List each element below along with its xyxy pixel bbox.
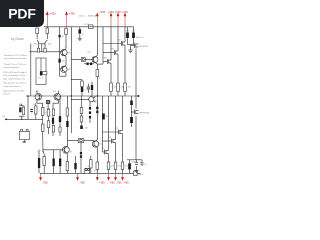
svg-text:22k: 22k — [45, 113, 48, 115]
capacitor C21 — [91, 85, 93, 90]
capacitor C4 vas — [81, 87, 83, 92]
resistor R20 in loop — [42, 72, 47, 75]
resistor R1b — [46, 28, 49, 34]
svg-text:Amp gain here on 100v: Amp gain here on 100v — [4, 89, 25, 92]
wire: far right mosfet column lower — [135, 96, 137, 109]
wire: driver right emitter — [66, 154, 68, 162]
svg-text:-V50: -V50 — [116, 181, 122, 184]
loop inner wire — [40, 58, 42, 71]
resistor R3 (upper pair emitter) — [37, 48, 39, 52]
svg-text:-V50: -V50 — [80, 181, 86, 184]
resistor R5 vas load — [81, 81, 84, 87]
description text block — [4, 54, 28, 95]
wire: gate bus top bank — [102, 27, 104, 64]
+V arrow 5 — [117, 16, 119, 27]
svg-text:2N5: 2N5 — [48, 43, 51, 45]
transistor Q5 lower pair left — [35, 91, 43, 104]
resistor R14 driver emitter left — [43, 157, 46, 166]
wire: input shunt RC — [19, 105, 25, 107]
resistor R19 zobel inductor — [90, 160, 93, 169]
wire: vas load column — [71, 79, 82, 81]
wire: feedback lower res column — [66, 96, 68, 108]
driver base bus — [43, 149, 65, 151]
diode D1 — [59, 35, 61, 38]
transistor Q6 lower pair right — [53, 91, 61, 104]
capacitor C15 comp — [52, 118, 54, 124]
svg-text:2N55: 2N55 — [99, 144, 103, 146]
+V50 labels — [43, 11, 130, 185]
wire: br drop3 — [141, 160, 143, 162]
svg-text:Translation: R1 R2 100u in: Translation: R1 R2 100u in — [4, 54, 28, 57]
svg-text:+V50: +V50 — [108, 11, 115, 14]
wire: gate branch M7 — [103, 140, 112, 142]
svg-text:47u: 47u — [83, 89, 86, 91]
capacitor C17 under bus — [130, 101, 133, 106]
svg-text:2N55: 2N55 — [67, 53, 71, 55]
wire: VAS collector column — [65, 43, 67, 49]
zener pair wire — [84, 63, 94, 65]
wire: series R column — [35, 103, 37, 106]
mosfet M2 — [114, 50, 118, 55]
lamp line to bias — [67, 140, 78, 142]
+V arrow 4 — [110, 16, 112, 27]
svg-text:2N55: 2N55 — [67, 69, 71, 71]
wire: feedback column — [70, 27, 72, 133]
lamp L3 bias — [78, 138, 84, 142]
PDF badge — [0, 0, 44, 27]
fuse F1 — [89, 25, 94, 29]
small box bottom rail right — [134, 171, 138, 176]
svg-text:1N4: 1N4 — [85, 128, 88, 130]
svg-text:100u: 100u — [132, 162, 138, 164]
node bus b — [97, 95, 98, 96]
wire: far right mosfet column upper — [135, 49, 137, 97]
transistor Q9 pre-driver — [89, 97, 94, 102]
wire: gate bus lower bank — [102, 96, 104, 152]
wire: left long column — [30, 44, 32, 97]
svg-text:+V50: +V50 — [99, 11, 106, 14]
cap film right — [141, 161, 144, 163]
resistor R13 tail2 — [47, 121, 50, 128]
svg-text:type; all the breakers 20: type; all the breakers 20 — [4, 77, 26, 80]
svg-text:IRFP240: IRFP240 — [139, 46, 148, 48]
resistor R6 driver col — [96, 70, 99, 77]
bottom -V rail — [40, 172, 140, 174]
capacitor C16 — [74, 163, 76, 169]
svg-text:R11: R11 — [88, 52, 91, 54]
svg-text:F1 5A: F1 5A — [84, 23, 90, 26]
capacitor C13 bottom right electro — [128, 163, 131, 169]
mosfet M3 — [107, 59, 111, 64]
svg-text:A968: A968 — [68, 151, 72, 154]
svg-text:IRFP9240: IRFP9240 — [139, 113, 149, 115]
svg-text:0R3: 0R3 — [118, 166, 121, 168]
svg-text:T4 and T5 in a TO-92 are: T4 and T5 in a TO-92 are — [4, 64, 27, 66]
-V arrow 2 — [77, 173, 79, 178]
capacitor C18 mid — [59, 116, 61, 122]
-V arrow 1 — [40, 173, 42, 178]
transistor Q3 (cascode) — [61, 49, 67, 57]
lamp line to driver — [71, 59, 81, 61]
capacitor C7 cap across drivers — [53, 159, 55, 167]
resistor R12 tail — [47, 109, 50, 116]
wire: lower right cap column — [131, 96, 133, 101]
svg-text:10u: 10u — [19, 104, 22, 106]
ground G1 (top cap) — [78, 37, 82, 39]
mosfet M7 lower bank — [112, 139, 116, 144]
svg-text:are mounted on heatsinks.: are mounted on heatsinks. — [4, 57, 28, 60]
mosfet M6 lower bank — [119, 130, 123, 135]
resistor R9 fb upper — [41, 108, 44, 116]
source resistor RS3 — [114, 162, 117, 170]
wire: bias diode column — [89, 102, 91, 107]
svg-text:2N5: 2N5 — [53, 91, 56, 93]
wire: output bank column D — [124, 27, 126, 42]
svg-text:by Dean: by Dean — [11, 37, 24, 41]
node in junction — [21, 119, 22, 120]
resistor R22 comp col2 — [52, 126, 54, 133]
svg-text:-V50: -V50 — [123, 181, 129, 184]
+V arrow 3 — [96, 16, 98, 27]
gate resistor RG1 — [110, 83, 113, 92]
transistor Q12 driver right — [63, 146, 70, 154]
wire: second collector column — [65, 27, 67, 29]
wire: zener column — [59, 27, 61, 35]
svg-text:PDF: PDF — [8, 5, 36, 21]
resistor R10 fb lower — [41, 124, 44, 132]
wire: gate branch M1 — [103, 43, 121, 45]
input pair emitter bus — [30, 51, 63, 53]
svg-text:47u 1k: 47u 1k — [38, 78, 43, 80]
top +V rail — [44, 26, 134, 28]
+V arrow 1 — [39, 12, 126, 181]
wire: gate branch M8 — [103, 151, 105, 153]
capacitor C12 mid right — [102, 114, 105, 120]
capacitor C6 input — [19, 107, 21, 112]
svg-text:1k: 1k — [65, 47, 67, 49]
resistor R7 input shunt — [22, 107, 24, 115]
svg-text:2N5: 2N5 — [34, 43, 37, 45]
resistor R11 — [66, 108, 69, 116]
resistor R8 input series — [35, 106, 37, 114]
svg-text:for main heatsink.: for main heatsink. — [4, 66, 20, 69]
source resistor RS1 — [96, 162, 99, 170]
svg-text:+V50: +V50 — [50, 13, 57, 16]
wire: lower bank column D — [122, 96, 124, 131]
svg-text:1N4: 1N4 — [62, 61, 65, 63]
-V arrow 6 — [122, 173, 124, 178]
svg-text:0R3: 0R3 — [125, 166, 128, 168]
wire: output bank column B — [110, 27, 112, 60]
svg-text:AGB 5A: AGB 5A — [88, 15, 96, 18]
wire: tail source column — [48, 116, 50, 121]
wire: lower bank column C — [115, 96, 117, 140]
wire: gate branch M3 — [103, 61, 107, 63]
resistor R15 driver emitter right — [66, 162, 69, 171]
wire: decoupling cap column — [79, 27, 81, 29]
svg-text:2N5: 2N5 — [95, 100, 98, 102]
gate resistor RG3 — [124, 83, 127, 92]
svg-text:show rated devices.: show rated devices. — [4, 85, 22, 88]
speaker terminal box — [85, 168, 90, 173]
transistor Q4 (vas) — [61, 65, 67, 72]
capacitor C19 fb — [66, 121, 68, 127]
diode D7 — [80, 155, 82, 158]
svg-text:+V50: +V50 — [69, 13, 76, 16]
resistor R17 bias chain 2 — [80, 116, 83, 122]
wire: mid col x60 — [59, 96, 61, 116]
wire: rail cap drop 2 — [133, 27, 135, 33]
resistor R4 (upper pair emitter) — [44, 48, 46, 52]
svg-text:100u: 100u — [105, 116, 109, 118]
-V arrow 3 — [96, 173, 98, 178]
diode pair D4 — [96, 107, 98, 110]
svg-text:100u 1u: 100u 1u — [136, 37, 145, 39]
svg-text:-V50: -V50 — [99, 181, 105, 184]
svg-text:1k: 1k — [98, 77, 100, 79]
node fb — [71, 95, 72, 96]
transistor Q10 bias — [92, 140, 98, 148]
wire: driver left column — [42, 103, 44, 107]
diode D6 — [80, 152, 82, 155]
wire: VAS base taps — [60, 68, 63, 70]
svg-text:+50v in: +50v in — [78, 16, 86, 18]
loop box (bootstrap) — [36, 58, 46, 85]
gate resistor RG2 — [117, 83, 120, 92]
wire: gate branch M2 — [103, 52, 114, 54]
svg-text:devices.: devices. — [4, 93, 12, 95]
wire: long driver column — [96, 27, 98, 56]
svg-text:1u: 1u — [82, 34, 84, 36]
zener pair Z1 — [87, 63, 89, 66]
svg-text:0R3: 0R3 — [111, 166, 114, 168]
capacitor C8 cap across drivers 2 — [59, 159, 61, 167]
diode stack D3 — [89, 107, 91, 110]
node output — [137, 95, 139, 97]
svg-text:220: 220 — [128, 87, 131, 89]
resistor R23 mid col — [59, 127, 61, 132]
source resistor RS4 — [121, 162, 124, 170]
cap C small film bottom right — [135, 162, 138, 164]
svg-text:1u: 1u — [91, 83, 93, 85]
wire: left collector load column — [36, 34, 38, 40]
input node wire — [6, 118, 43, 120]
transistor Q11 driver left — [43, 147, 44, 153]
capacitor C1 (rail decoupling) — [79, 29, 82, 33]
wire: gate branch M6 — [103, 131, 119, 133]
bottom right filter top line — [127, 159, 142, 161]
capacitor C3 top right — [132, 33, 135, 39]
wire: rail cap drop 1 — [127, 27, 129, 33]
ground G3 (bottom right filter) — [136, 169, 138, 172]
svg-text:2N5: 2N5 — [37, 150, 40, 152]
mosfet M5 far right lower — [131, 110, 138, 115]
wire: comp cap col — [52, 103, 54, 109]
wire: br cap1 — [129, 160, 131, 164]
base join / tail — [39, 43, 45, 45]
svg-text:-V50: -V50 — [109, 181, 115, 184]
wire: left bottom chain — [38, 151, 40, 159]
lamp bias diodes column — [80, 143, 82, 152]
svg-text:+V50: +V50 — [122, 11, 129, 14]
-V arrow 5 — [115, 173, 117, 178]
resistor R1a (under badge edge) — [36, 28, 39, 34]
current source box Q7 — [46, 100, 50, 103]
svg-text:All capacitors are 100u to: All capacitors are 100u to — [4, 82, 27, 85]
capacitor C14 in loop — [40, 71, 42, 75]
svg-text:0R22: 0R22 — [138, 174, 144, 176]
capacitor C2 top right — [126, 33, 129, 39]
svg-text:R H out if voltage; R2 for: R H out if voltage; R2 for — [4, 74, 26, 77]
wire: second diode column — [96, 101, 98, 106]
transistor Q1 (input pair left) — [37, 40, 39, 48]
diode D5 — [80, 126, 83, 130]
svg-text:220: 220 — [121, 87, 124, 89]
wire: res chain col — [81, 96, 83, 108]
bias bus — [71, 99, 88, 101]
svg-text:1k: 1k — [33, 104, 35, 106]
mosfet M4 far right upper — [131, 43, 138, 48]
wire: lower bank column B — [108, 96, 110, 151]
wire: base drop — [27, 96, 29, 119]
mosfet M8 lower bank — [105, 150, 109, 155]
source resistor RS2 — [107, 162, 110, 170]
lamp L2 — [81, 58, 85, 62]
resistor R21 comp col — [52, 109, 54, 116]
wire: br cap2 — [136, 160, 138, 162]
pot box (input) — [19, 131, 29, 139]
capacitor C5 (fb electrolytic) — [38, 158, 40, 168]
+V arrow 6 — [124, 16, 126, 27]
main output bus — [26, 95, 138, 97]
input cap tiny bars (film cap symbol) — [30, 109, 32, 110]
mosfet M1 — [121, 41, 125, 46]
wire: cap join to ground — [128, 44, 134, 46]
capacitor C20 film — [87, 86, 90, 89]
ground G4 (pot) — [23, 140, 25, 142]
capacitor C11 lower right col — [130, 117, 133, 123]
svg-text:220: 220 — [114, 87, 117, 89]
svg-text:+V50: +V50 — [115, 11, 122, 14]
ground G2 (top right filter) — [130, 49, 132, 50]
node input — [5, 118, 7, 120]
+V arrow 2 — [66, 15, 68, 27]
wire: output bank column C — [117, 27, 119, 51]
transistor Q5a (pre-driver) — [92, 57, 98, 63]
diode D2 — [58, 59, 60, 63]
resistor R16 bias chain 1 — [80, 108, 83, 114]
svg-text:0R22: 0R22 — [94, 171, 98, 173]
transistor Q2 (input pair right) — [45, 40, 47, 48]
svg-text:2N5: 2N5 — [36, 91, 39, 93]
svg-text:-V50: -V50 — [43, 181, 49, 184]
-V arrow 4 — [108, 173, 110, 178]
wire: caps to bottom — [53, 150, 55, 159]
svg-text:R26 in R56 and F used all: R26 in R56 and F used all — [4, 72, 28, 74]
resistor R2 — [65, 29, 68, 35]
